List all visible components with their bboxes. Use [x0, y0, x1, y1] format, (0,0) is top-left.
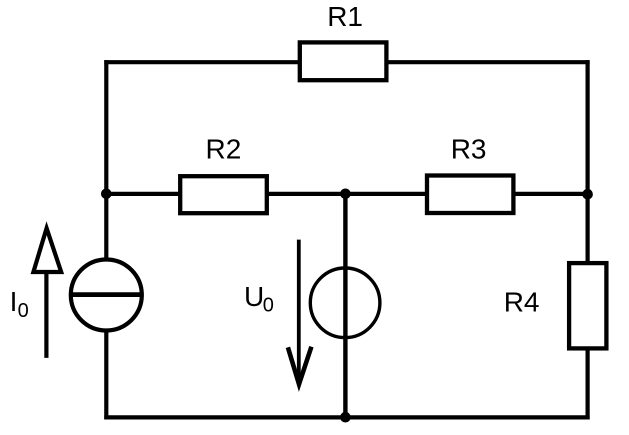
node bottom middle (junction dot) [340, 412, 351, 423]
wire middle row (left node to right node) [104, 192, 589, 196]
svg-text:R1: R1 [327, 1, 363, 32]
svg-text:R2: R2 [206, 134, 242, 165]
arrow U0 voltage direction [288, 240, 312, 385]
label I0 [10, 286, 29, 322]
arrow I0 current direction [33, 228, 61, 358]
resistor R1 [300, 42, 387, 80]
voltage source U0 [310, 268, 380, 338]
node right (junction dot) [582, 189, 593, 200]
wire middle rail (node A to bottom node) [343, 194, 347, 418]
wire bottom (bottom-left to bottom-right) [104, 415, 589, 419]
resistor R2 [180, 176, 267, 213]
svg-text:0: 0 [18, 300, 29, 322]
resistor R4 [569, 263, 606, 348]
resistor R3 [427, 176, 513, 214]
svg-text:0: 0 [263, 294, 274, 316]
wire left rail [104, 60, 108, 419]
wire top (node top-left to node top-right) [104, 60, 589, 64]
svg-text:R3: R3 [451, 134, 487, 165]
node left (junction dot) [101, 189, 112, 200]
current source I0 [69, 260, 144, 331]
svg-text:I: I [10, 286, 18, 317]
wire right rail [585, 60, 589, 419]
svg-text:R4: R4 [504, 287, 540, 318]
svg-text:U: U [244, 281, 264, 312]
node A middle (junction dot) [340, 189, 351, 200]
label U0 [244, 281, 274, 316]
